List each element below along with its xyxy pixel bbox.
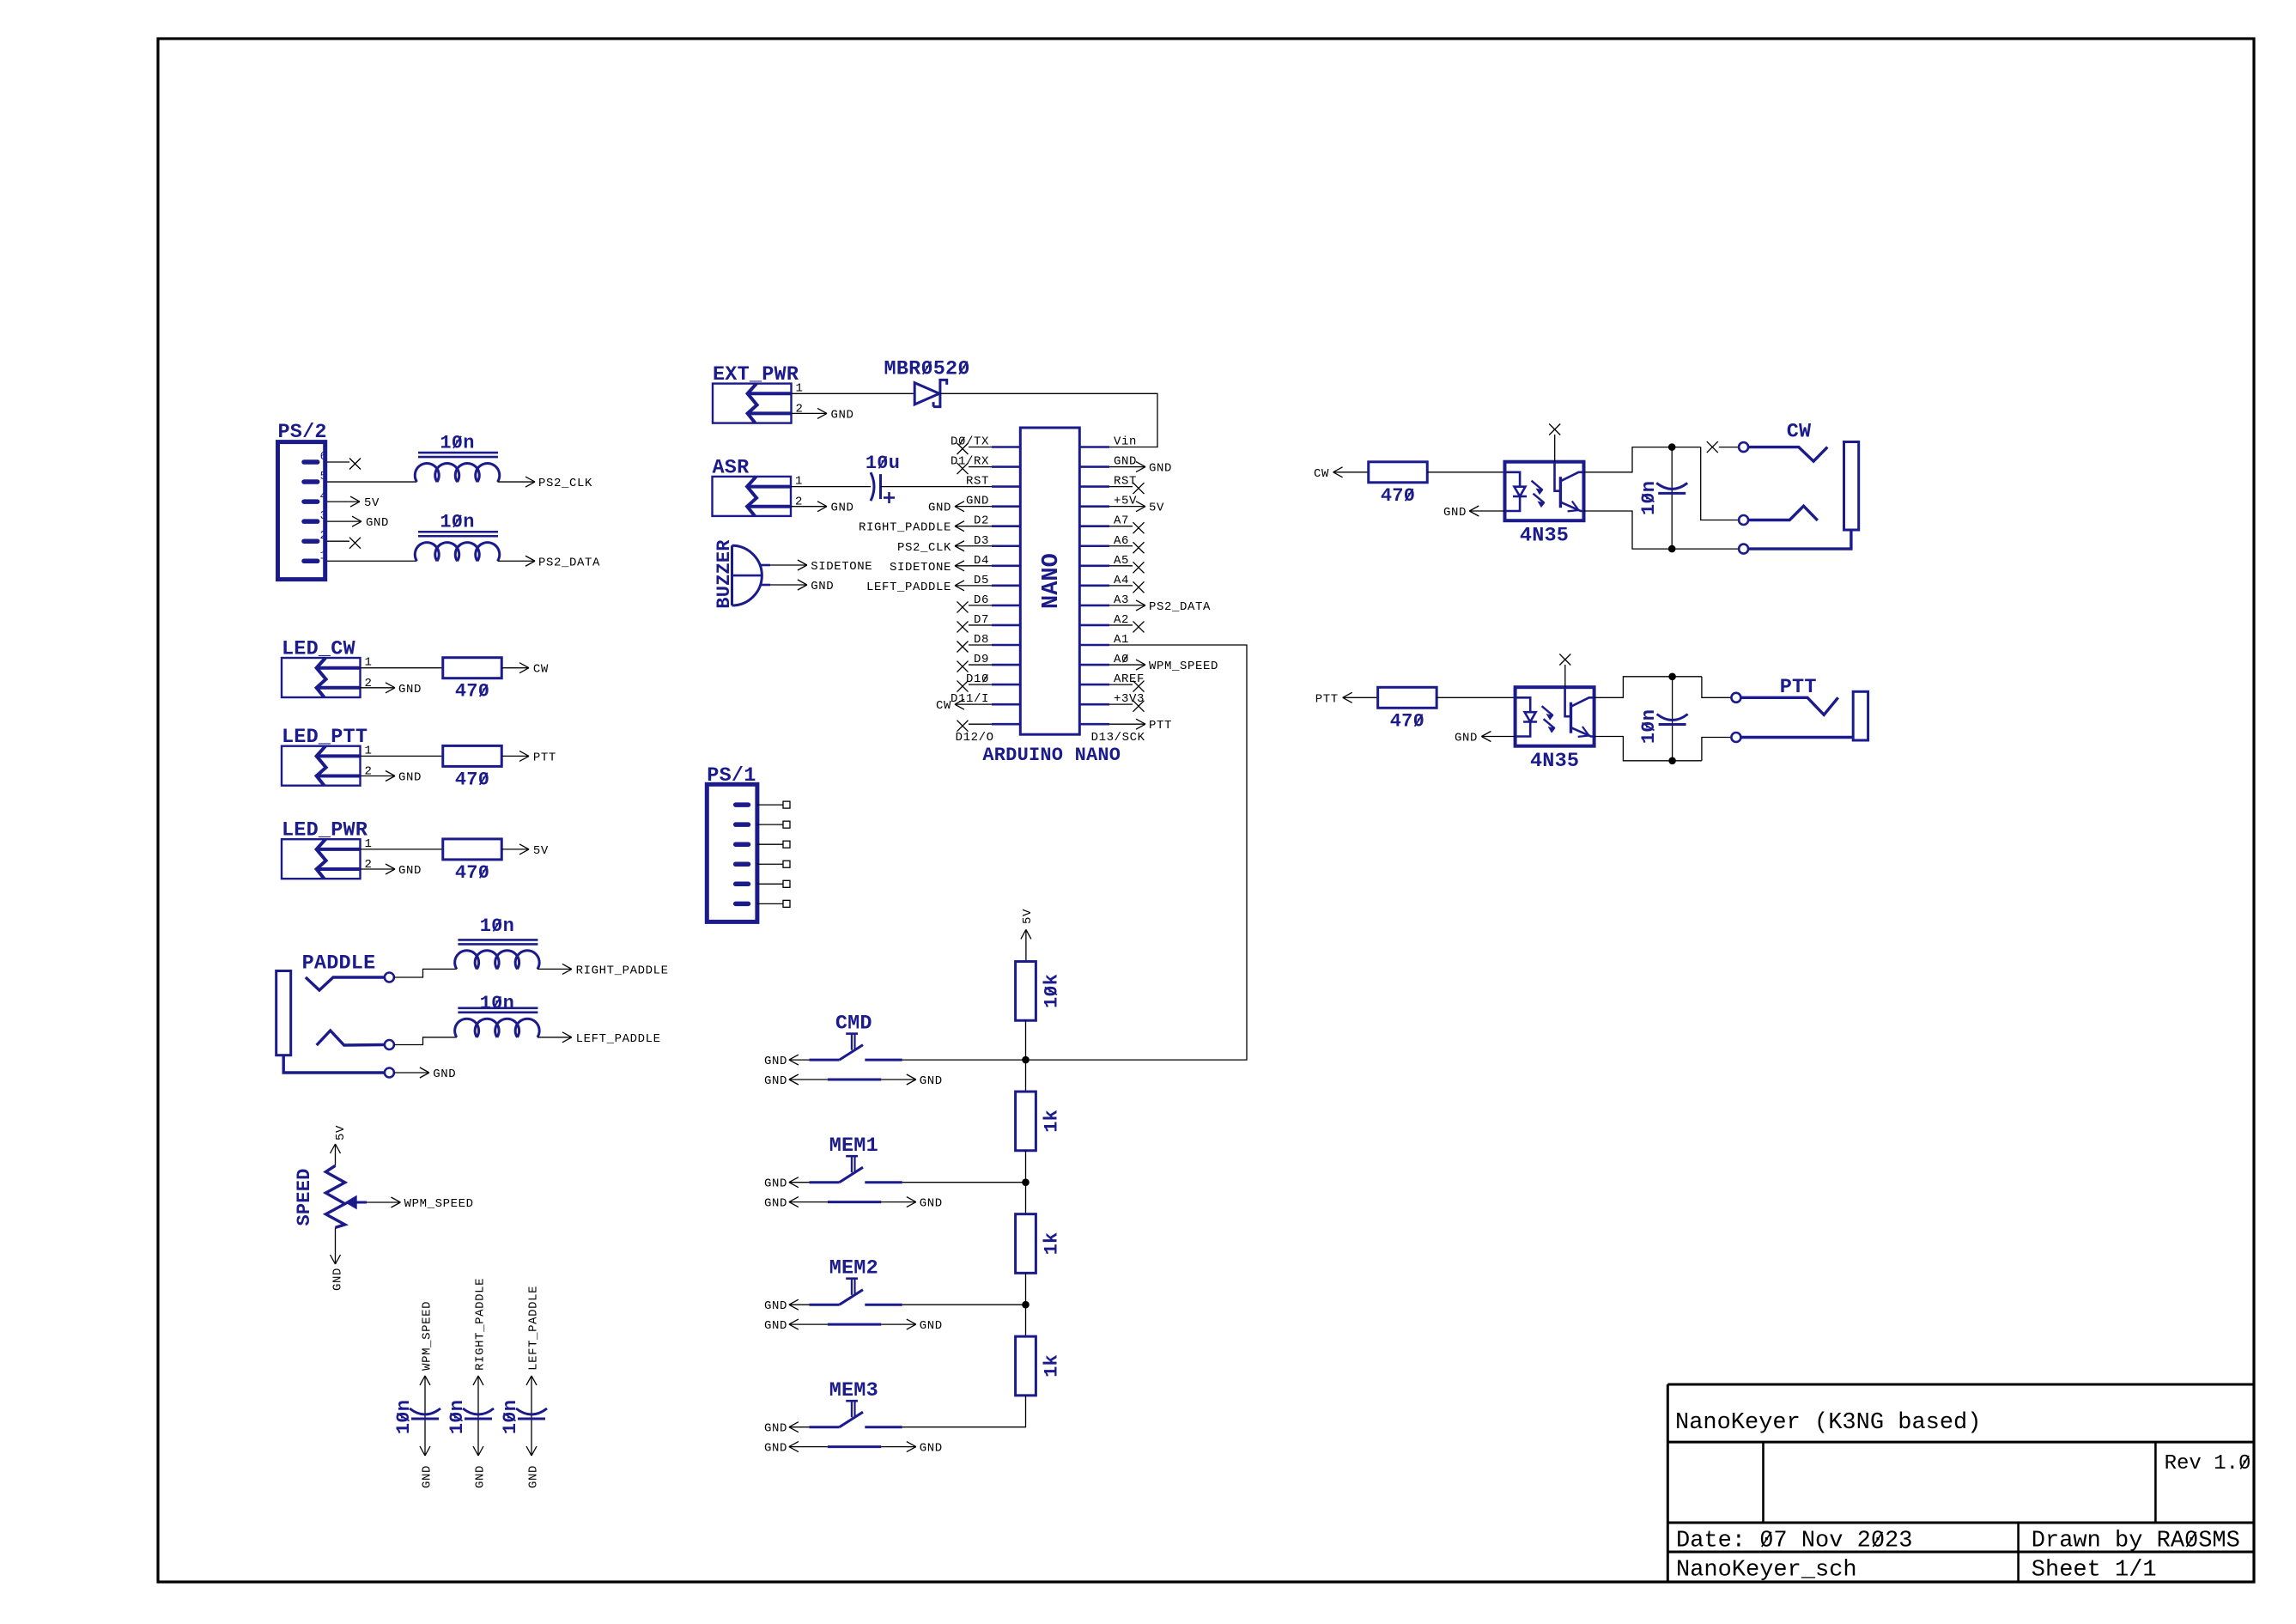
IC U1 pin A0 (right): [1079, 664, 1109, 666]
IC U1 pin A6 (right): [1079, 544, 1109, 547]
svg-text:5V: 5V: [533, 844, 549, 858]
wire CW network right vertical: [1701, 447, 1740, 520]
wire PTT to R7: [1343, 696, 1378, 698]
svg-text:GND: GND: [764, 1442, 787, 1456]
junction node MEM2: [1022, 1301, 1030, 1309]
IC U1 ARDUINO NANO body: [1020, 428, 1079, 734]
svg-text:D12/O: D12/O: [956, 731, 994, 745]
wire L1 to PS2_CLK: [498, 481, 536, 483]
svg-text:PS2_CLK: PS2_CLK: [538, 477, 592, 490]
svg-text:PTT: PTT: [1780, 676, 1817, 699]
wire ASR pin2 GND: [791, 506, 827, 508]
wire LED_PTT pin2 GND: [361, 776, 396, 777]
title block frame: [1667, 1384, 2252, 1552]
wire PS/2 pin5 to L1: [327, 481, 417, 483]
svg-text:GND: GND: [366, 516, 389, 530]
svg-text:PTT: PTT: [533, 751, 556, 764]
IC U1 pin RST (right): [1079, 485, 1109, 488]
switch MEM1 GND wire left: [789, 1182, 810, 1183]
svg-text:470: 470: [1390, 710, 1424, 732]
potentiometer SPEED wiper: [346, 1196, 357, 1209]
switch MEM3 second pole: [789, 1446, 828, 1448]
wire C_rp vertical: [477, 1376, 479, 1456]
svg-text:NanoKeyer_sch: NanoKeyer_sch: [1676, 1558, 1857, 1584]
optocoupler U2 4N35 body: [1505, 462, 1584, 521]
svg-text:GND: GND: [764, 1319, 787, 1333]
wire no-connect A4: [1109, 585, 1133, 587]
jack CW sleeve contact: [1739, 544, 1748, 554]
svg-text:SIDETONE: SIDETONE: [811, 560, 872, 574]
svg-text:GND: GND: [474, 1465, 488, 1488]
switch MEM2 GND wire left: [789, 1304, 810, 1305]
svg-text:Sheet 1/1: Sheet 1/1: [2032, 1558, 2157, 1584]
inductor L3 10n: [455, 951, 540, 970]
wire PS/2 pin6 no-connect: [327, 461, 349, 463]
wire PS/1 pin 1 stub: [757, 804, 783, 806]
inductor L2 10n: [415, 543, 499, 562]
svg-text:4N35: 4N35: [1530, 750, 1579, 773]
svg-text:PS2_DATA: PS2_DATA: [1149, 600, 1211, 614]
svg-text:GND: GND: [331, 1268, 345, 1291]
svg-text:LEFT_PADDLE: LEFT_PADDLE: [527, 1286, 541, 1371]
wire no-connect A2: [1109, 624, 1133, 626]
jack PTT sleeve contact: [1731, 733, 1740, 742]
diode D1 MBR0520: [914, 383, 939, 404]
wire C_lp vertical: [531, 1376, 532, 1456]
wire net SIDETONE to pin D4: [955, 565, 992, 567]
svg-text:GND: GND: [764, 1197, 787, 1211]
svg-text:GND: GND: [764, 1299, 787, 1313]
svg-text:1k: 1k: [1042, 1110, 1063, 1133]
net label RIGHT_PADDLE (C_rp): [473, 1376, 478, 1385]
net label GND (C_lp): [526, 1446, 531, 1456]
optocoupler U2 4N35 light arrows: [1532, 481, 1543, 490]
resistor R4 1k: [1016, 1214, 1036, 1274]
wire no-connect D9: [969, 664, 992, 666]
svg-text:1k: 1k: [1042, 1232, 1063, 1256]
resistor R_LED_PTT 470: [443, 745, 502, 766]
switch MEM1 second pole: [789, 1201, 828, 1203]
IC U1 pin A3 (right): [1079, 605, 1109, 607]
wire net GND to pin GND: [955, 506, 992, 508]
wire C_wpm vertical: [424, 1376, 426, 1456]
wire R6 to U2: [1427, 471, 1504, 473]
optocoupler U3 4N35 light arrows: [1542, 706, 1553, 715]
wire LED_CW pin1 to resistor: [361, 667, 443, 669]
wire PS/1 pin 4 stub: [757, 863, 783, 865]
wire CMD node to R3: [1025, 1060, 1027, 1092]
IC U1 pin D2 (left): [992, 525, 1020, 527]
svg-text:5V: 5V: [1149, 502, 1164, 515]
svg-text:GND: GND: [398, 864, 422, 878]
wire U3 GND: [1481, 736, 1515, 738]
IC U1 pin D13/SCK (right): [1079, 723, 1109, 726]
wire MEM1 node to R4: [1025, 1183, 1027, 1214]
svg-text:RIGHT_PADDLE: RIGHT_PADDLE: [576, 964, 669, 977]
svg-text:GND: GND: [811, 580, 834, 593]
wire PS/1 pin 5 stub: [757, 883, 783, 885]
junction CW top: [1668, 443, 1676, 451]
IC U1 pin A7 (right): [1079, 525, 1109, 527]
svg-text:RST: RST: [966, 475, 989, 489]
wire no-connect AREF: [1109, 684, 1133, 685]
wire buzzer SIDETONE: [770, 564, 807, 566]
wire 5V arrow to R2: [1021, 929, 1026, 939]
wire PADDLE tip to L3: [394, 969, 457, 977]
switch MEM3 symbol: [846, 1400, 858, 1402]
svg-text:GND: GND: [1455, 732, 1478, 745]
switch CMD second pole: [789, 1079, 828, 1080]
optocoupler U2 4N35 phototransistor: [1555, 462, 1561, 491]
svg-text:GND: GND: [831, 502, 854, 515]
wire L4 to LEFT_PADDLE: [538, 1037, 572, 1038]
svg-text:CW: CW: [533, 663, 549, 677]
wire diode to NANO Vin: [940, 393, 1157, 447]
wire U3 collector to PTT jack network: [1594, 677, 1702, 698]
net label LEFT_PADDLE (C_lp): [526, 1376, 531, 1385]
wire EXT_PWR pin2 GND: [792, 412, 828, 414]
connector PS/2 pin pads: [304, 459, 318, 465]
svg-text:CW: CW: [936, 699, 951, 713]
svg-text:1k: 1k: [1042, 1354, 1063, 1378]
wire net PS2_DATA from pin A3: [1109, 605, 1145, 606]
wire MEM2 to node: [902, 1304, 1026, 1305]
IC U1 pin D12/O (left): [992, 723, 1020, 726]
connector LED_CW body: [282, 658, 361, 697]
capacitor C_rp 10n: [463, 1408, 494, 1414]
wire no-connect D6: [969, 605, 992, 606]
wire net GND from pin GND: [1109, 466, 1145, 468]
optocoupler U3 4N35 phototransistor: [1565, 687, 1571, 716]
svg-text:NANO: NANO: [1039, 553, 1065, 609]
svg-text:SPEED: SPEED: [294, 1168, 315, 1226]
IC U1 pin D3 (left): [992, 544, 1020, 547]
switch CMD symbol: [846, 1032, 858, 1035]
resistor R2 10k: [1016, 962, 1036, 1021]
wire PS/2 pin4 5V: [327, 501, 360, 502]
svg-text:CMD: CMD: [835, 1013, 872, 1036]
wire R2 to CMD node: [1025, 1020, 1027, 1060]
IC U1 pin D1/RX (left): [992, 465, 1020, 468]
IC U1 pin D9 (left): [992, 664, 1020, 666]
connector LED_PWR body: [282, 839, 361, 879]
wire no-connect A6: [1109, 545, 1133, 547]
net label WPM_SPEED (C_wpm): [420, 1376, 425, 1385]
wire U3 emitter to PTT jack network: [1594, 737, 1702, 761]
svg-text:GND: GND: [398, 771, 422, 785]
wire A1 to CMD node: [1026, 645, 1248, 1060]
IC U1 pin A5 (right): [1079, 564, 1109, 567]
wire net PTT from pin D13/SCK: [1109, 723, 1145, 725]
wire R7 to U3: [1437, 696, 1515, 698]
svg-text:PS2_CLK: PS2_CLK: [897, 541, 951, 555]
wire PS/1 pin 3 stub: [757, 843, 783, 845]
IC U1 pin D6 (left): [992, 605, 1020, 607]
svg-text:LEFT_PADDLE: LEFT_PADDLE: [866, 581, 951, 594]
IC U1 pin D4 (left): [992, 564, 1020, 567]
jack PTT body: [1853, 691, 1868, 740]
svg-text:5V: 5V: [334, 1125, 348, 1140]
wire LED_PWR pin2 GND: [361, 868, 396, 870]
wire EXT_PWR pin1 to diode: [792, 392, 915, 394]
wire net PS2_CLK to pin D3: [955, 545, 992, 547]
wire R_LED_PTT to net: [502, 755, 529, 757]
wire wiper to WPM_SPEED: [367, 1201, 400, 1203]
svg-text:GND: GND: [764, 1422, 787, 1436]
IC U1 pin D7 (left): [992, 624, 1020, 627]
wire no-connect +3V3: [1109, 703, 1133, 705]
wire U2 collector to CW jack network: [1584, 447, 1701, 472]
svg-text:470: 470: [455, 681, 489, 703]
IC U1 pin +3V3 (right): [1079, 703, 1109, 706]
IC U1 pin D5 (left): [992, 585, 1020, 587]
wire PS/2 pin1 to L2: [327, 560, 417, 562]
wire LED_PWR pin1 to resistor: [361, 848, 443, 850]
svg-text:ARDUINO NANO: ARDUINO NANO: [982, 745, 1121, 766]
svg-text:D13/SCK: D13/SCK: [1091, 731, 1145, 745]
svg-text:GND: GND: [1443, 506, 1467, 520]
wire PADDLE ring to L4: [394, 1037, 457, 1045]
svg-text:SIDETONE: SIDETONE: [890, 561, 951, 575]
resistor R7 470: [1378, 687, 1437, 708]
svg-text:CW: CW: [1314, 467, 1329, 481]
wire MEM2 node to R5: [1025, 1305, 1027, 1336]
connector PS/2 body: [278, 442, 325, 580]
resistor R_LED_CW 470: [443, 658, 502, 678]
svg-text:4N35: 4N35: [1520, 525, 1569, 548]
svg-text:MEM1: MEM1: [829, 1134, 878, 1158]
wire net LEFT_PADDLE to pin D5: [955, 585, 992, 587]
svg-text:GND: GND: [527, 1465, 541, 1488]
wire R4 to MEM2 node: [1025, 1273, 1027, 1305]
junction PTT bottom: [1668, 757, 1676, 765]
resistor R_LED_PWR 470: [443, 839, 502, 860]
optocoupler U3 4N35 LED: [1515, 697, 1531, 712]
IC U1 pin A2 (right): [1079, 624, 1109, 627]
wire net WPM_SPEED from pin A0: [1109, 664, 1145, 666]
wire R_LED_CW to net: [502, 667, 529, 669]
IC U1 pin RST (left): [992, 485, 1020, 488]
connector LED_PTT body: [282, 746, 361, 786]
wire net 5V from pin +5V: [1109, 506, 1145, 508]
svg-text:470: 470: [1381, 485, 1415, 507]
wire no-connect RST: [1109, 486, 1133, 488]
switch MEM2 second pole: [789, 1323, 828, 1325]
connector PS/1 pin pad 2: [736, 822, 749, 827]
wire PTT network right vertical top: [1702, 677, 1732, 698]
svg-text:GND: GND: [1149, 462, 1172, 476]
switch MEM3 GND wire left: [789, 1426, 810, 1428]
wire L2 to PS2_DATA: [498, 560, 536, 562]
IC U1 pin D11/I (left): [992, 703, 1020, 706]
svg-text:CW: CW: [1787, 421, 1812, 444]
switch MEM2 symbol: [846, 1277, 858, 1280]
switch CMD GND wire left: [789, 1059, 810, 1061]
svg-text:WPM_SPEED: WPM_SPEED: [421, 1301, 434, 1371]
svg-text:GND: GND: [831, 408, 854, 422]
svg-text:PTT: PTT: [1315, 692, 1339, 706]
wire no-connect D7: [969, 624, 992, 626]
jack PADDLE ring contact: [317, 1031, 385, 1045]
svg-text:PADDLE: PADDLE: [302, 952, 376, 975]
svg-text:5V: 5V: [364, 496, 380, 510]
inductor L1 10n: [415, 463, 499, 482]
svg-text:GND: GND: [920, 1197, 943, 1211]
wire CMD to node: [902, 1059, 1026, 1061]
wire CW jack tip stub no-connect: [1719, 447, 1739, 448]
junction CW bottom: [1668, 545, 1676, 553]
junction node MEM1: [1022, 1178, 1030, 1186]
svg-text:GND: GND: [920, 1319, 943, 1333]
connector PS/1 pin pad 5: [736, 882, 749, 887]
svg-text:NanoKeyer (K3NG based): NanoKeyer (K3NG based): [1675, 1410, 1981, 1436]
svg-text:470: 470: [455, 769, 489, 790]
junction node CMD: [1022, 1056, 1030, 1064]
wire CW to R6: [1333, 471, 1369, 473]
capacitor C_lp 10n: [516, 1408, 547, 1414]
wire net CW to pin D11/I: [955, 703, 992, 705]
connector PS/1 pin pad 3: [736, 842, 749, 847]
svg-text:GND: GND: [764, 1177, 787, 1191]
IC U1 pin GND (right): [1079, 465, 1109, 468]
svg-text:GND: GND: [764, 1074, 787, 1088]
switch MEM1 symbol: [846, 1155, 858, 1158]
connector EXT_PWR body: [713, 384, 792, 423]
wire SPEED to GND: [335, 1227, 337, 1264]
svg-text:GND: GND: [421, 1465, 434, 1488]
optocoupler U2 4N35 LED: [1505, 472, 1521, 487]
wire U2 emitter to CW jack network: [1584, 511, 1740, 549]
svg-text:GND: GND: [920, 1442, 943, 1456]
IC U1 pin A1 (right): [1079, 644, 1109, 647]
wire buzzer GND: [770, 584, 807, 586]
svg-text:LEFT_PADDLE: LEFT_PADDLE: [576, 1032, 661, 1046]
capacitor C3 10n: [1672, 677, 1673, 761]
connector PS/1 body: [707, 784, 757, 921]
svg-text:5V: 5V: [1021, 909, 1035, 924]
svg-text:470: 470: [455, 862, 489, 884]
resistor R3 1k: [1016, 1092, 1036, 1151]
IC U1 pin D8 (left): [992, 644, 1020, 647]
wire L3 to RIGHT_PADDLE: [538, 968, 572, 970]
svg-text:Vin: Vin: [1114, 435, 1137, 449]
resistor R5 1k: [1016, 1336, 1036, 1396]
optocoupler U3 4N35 body: [1515, 687, 1594, 746]
connector PS/1 pin pad 6: [736, 902, 749, 907]
svg-text:MEM3: MEM3: [829, 1379, 878, 1402]
wire no-connect D0/TX: [969, 447, 992, 448]
wire no-connect D8: [969, 644, 992, 646]
IC U1 pin A4 (right): [1079, 585, 1109, 587]
svg-text:MEM2: MEM2: [829, 1257, 878, 1280]
resistor R6 470: [1369, 462, 1428, 483]
wire PS/1 pin 6 stub: [757, 903, 783, 904]
connector PS/1 pin pad 1: [736, 802, 749, 807]
svg-text:RIGHT_PADDLE: RIGHT_PADDLE: [859, 521, 951, 535]
svg-text:WPM_SPEED: WPM_SPEED: [404, 1197, 474, 1211]
inductor L4 10n: [455, 1019, 540, 1037]
jack CW body: [1844, 442, 1859, 531]
IC U1 pin Vin (right): [1079, 446, 1109, 448]
svg-text:PTT: PTT: [1149, 719, 1172, 733]
jack PADDLE tip contact: [306, 977, 385, 990]
IC U1 pin AREF (right): [1079, 684, 1109, 686]
junction PTT top: [1668, 673, 1676, 681]
wire U3 base no-connect: [1564, 665, 1566, 687]
wire no-connect D10: [969, 684, 992, 685]
jack PTT tip contact: [1731, 693, 1740, 703]
capacitor C_wpm 10n: [410, 1408, 440, 1414]
connector PS/1 pin pad 4: [736, 862, 749, 867]
svg-text:WPM_SPEED: WPM_SPEED: [1149, 660, 1218, 673]
wire LED_PTT pin1 to resistor: [361, 755, 443, 757]
svg-text:GND: GND: [920, 1074, 943, 1088]
wire C1 to NANO RST: [881, 486, 993, 488]
wire PTT network right vertical bottom: [1702, 738, 1732, 761]
net label GND (C_wpm): [420, 1446, 425, 1456]
svg-text:Drawn by RA0SMS: Drawn by RA0SMS: [2032, 1529, 2240, 1554]
buzzer BUZZER pins: [760, 564, 770, 567]
connector ASR body: [713, 477, 792, 516]
IC U1 pin GND (left): [992, 505, 1020, 508]
wire no-connect A7: [1109, 526, 1133, 527]
IC U1 pin +5V (right): [1079, 505, 1109, 508]
IC U1 pin D10 (left): [992, 684, 1020, 686]
wire PS/1 pin 2 stub: [757, 824, 783, 825]
wire 5V to SPEED: [331, 1144, 336, 1153]
svg-text:GND: GND: [764, 1055, 787, 1068]
capacitor C2 10n: [1671, 447, 1673, 550]
jack CW ring contact: [1739, 515, 1748, 525]
potentiometer SPEED zigzag: [325, 1165, 344, 1227]
jack PADDLE sleeve contact: [283, 1055, 385, 1073]
wire LED_CW pin2 GND: [361, 687, 396, 689]
wire no-connect D1/RX: [969, 466, 992, 468]
wire R5 to MEM3 row: [902, 1396, 1026, 1427]
wire PS/2 pin3 GND: [327, 520, 361, 522]
jack PADDLE sleeve body: [276, 971, 291, 1055]
svg-text:GND: GND: [433, 1067, 456, 1081]
wire no-connect D12/O: [969, 723, 992, 725]
wire U2 GND: [1469, 510, 1504, 512]
wire R3 to MEM1 node: [1025, 1151, 1027, 1183]
svg-text:PS2_DATA: PS2_DATA: [538, 556, 600, 569]
wire MEM1 to node: [902, 1182, 1026, 1183]
buzzer BUZZER body: [731, 545, 733, 605]
capacitor C1 10u: [871, 472, 874, 501]
wire R_LED_PWR to net: [502, 848, 529, 850]
svg-text:RIGHT_PADDLE: RIGHT_PADDLE: [474, 1278, 488, 1371]
jack CW tip contact: [1739, 442, 1748, 452]
wire U2 base no-connect: [1554, 435, 1556, 462]
svg-text:GND: GND: [928, 502, 951, 515]
wire no-connect A5: [1109, 565, 1133, 567]
svg-text:Rev 1.0: Rev 1.0: [2165, 1452, 2251, 1475]
wire ASR pin1 to C1: [791, 486, 871, 488]
wire PS/2 pin2 no-connect: [327, 540, 349, 542]
wire net RIGHT_PADDLE to pin D2: [955, 526, 992, 527]
svg-text:GND: GND: [398, 683, 422, 696]
net label GND (C_rp): [473, 1446, 478, 1456]
wire PADDLE sleeve GND: [394, 1072, 429, 1074]
IC U1 pin D0/TX (left): [992, 446, 1020, 448]
